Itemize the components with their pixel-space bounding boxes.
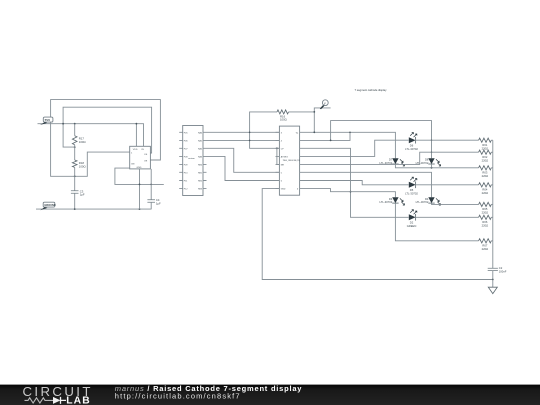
resistor R06 — [479, 215, 492, 219]
wire U1 pin2 / mid rail — [115, 168, 164, 184]
svg-text:220Ω: 220Ω — [482, 223, 489, 227]
resistor R03 — [479, 166, 492, 170]
wire U1 bottom pin to ground rail — [139, 169, 141, 209]
svg-text:LAB: LAB — [66, 396, 90, 405]
svg-text:220Ω: 220Ω — [482, 174, 489, 178]
svg-text:LTL-30702: LTL-30702 — [405, 147, 418, 151]
svg-text:GND: GND — [281, 189, 286, 191]
svg-text:custom: custom — [188, 157, 195, 160]
wire net segF U2 pin6 to D4 — [304, 172, 432, 197]
svg-text:http://circuitlab.com/cn8skf7: http://circuitlab.com/cn8skf7 — [115, 391, 241, 400]
svg-text:v: v — [324, 101, 326, 105]
capacitor C3 — [71, 191, 79, 194]
wire D6 cathode to R01 — [416, 139, 479, 141]
resistor R01 — [479, 138, 492, 142]
wire net segE U2 pin5 to R02 — [304, 152, 479, 164]
svg-text:100Ω: 100Ω — [280, 118, 287, 122]
wire J1 pin4 to U2 — [203, 156, 279, 180]
svg-text:1μF: 1μF — [80, 193, 85, 197]
svg-text:5V0: 5V0 — [45, 118, 51, 122]
LED D8 — [416, 158, 441, 166]
wire D8 cathode — [431, 164, 433, 168]
wire J1 pin2 to U2 — [203, 139, 279, 141]
svg-text:OE: OE — [144, 160, 148, 162]
resistor R04 — [479, 183, 492, 187]
wire net segG U2 pin7 to D5 — [304, 181, 409, 185]
wire D7 cathode to R03 — [395, 164, 478, 168]
wire U1 top pin A drop — [135, 124, 137, 147]
resistor R02 — [479, 150, 492, 154]
resistor R07 — [479, 239, 492, 243]
svg-text:VDD: VDD — [133, 149, 138, 151]
LED D6 — [405, 133, 418, 151]
wire cathode rail — [492, 140, 494, 268]
wire J1 pin3 to U2 — [203, 148, 279, 172]
wire net segH U2 pin8 to D3 — [304, 189, 396, 198]
wire net segA U2 pin1 to D7 — [304, 132, 396, 158]
logo resistor diode glyph — [25, 398, 54, 403]
wire ground return rail — [262, 189, 493, 280]
node flag VCC — [40, 117, 53, 125]
connector J1 — [179, 126, 206, 196]
svg-text:GROUND: GROUND — [44, 203, 56, 207]
IC U1 — [130, 146, 151, 169]
LED D2 — [407, 210, 417, 228]
wire main VCC rail — [38, 124, 144, 147]
svg-text:7SEG_CATHODE (PU): 7SEG_CATHODE (PU) — [283, 159, 301, 162]
svg-text:OS: OS — [144, 154, 148, 156]
LED D3 — [379, 197, 404, 205]
wire inner loop — [63, 107, 152, 153]
svg-text:220Ω: 220Ω — [482, 158, 489, 162]
svg-text:220Ω: 220Ω — [482, 247, 489, 251]
svg-text:LTL-30702: LTL-30702 — [416, 200, 429, 204]
FOOTER bar — [0, 0, 1, 1]
resistor R16 — [250, 112, 280, 148]
wire net segB U2 pin2 to D8 — [304, 132, 351, 140]
svg-text:220Ω: 220Ω — [482, 211, 489, 215]
resistor R05 — [479, 202, 492, 206]
capacitor C2 — [488, 268, 498, 270]
wire D2 cathode to R06 — [416, 216, 479, 218]
wire J1 pin1 to U2 — [203, 131, 279, 133]
svg-text:220Ω: 220Ω — [482, 146, 489, 150]
capacitor C4 — [150, 169, 152, 200]
svg-text:GREEN: GREEN — [407, 224, 417, 228]
svg-text:220Ω: 220Ω — [482, 191, 489, 195]
svg-text:MR: MR — [281, 164, 285, 166]
IC U2 — [276, 126, 304, 195]
wire D3 cathode to R07 — [395, 203, 478, 241]
resistor R17 — [74, 124, 76, 136]
svg-text:1μF: 1μF — [156, 201, 161, 205]
resistor R18 — [72, 160, 77, 167]
svg-text:LTL-30702: LTL-30702 — [405, 192, 418, 196]
wire D5 cathode to R04 — [416, 184, 479, 186]
svg-text:100Ω: 100Ω — [79, 140, 86, 144]
wire net segC U2 pin3 to D2 — [304, 148, 409, 217]
svg-text:GND: GND — [137, 167, 142, 169]
wire outer loop — [51, 100, 161, 177]
LED D7 — [379, 158, 404, 166]
ground — [492, 280, 494, 288]
wire U2 MR loop — [277, 148, 280, 164]
svg-text:100nF: 100nF — [499, 270, 507, 274]
wire net segD U2 pin4 to D6 — [304, 140, 409, 156]
svg-text:LTL-30702: LTL-30702 — [379, 200, 392, 204]
svg-text:GN: GN — [131, 163, 135, 165]
wire D4 cathode to R05 — [432, 203, 479, 204]
node flag ground — [40, 202, 56, 210]
svg-text:A7SEG: A7SEG — [281, 155, 288, 158]
svg-text:100Ω: 100Ω — [79, 164, 86, 168]
LED D5 — [405, 177, 418, 195]
wire ground rail left — [36, 208, 152, 210]
LED D4 — [416, 197, 441, 205]
node flag probe — [313, 100, 330, 133]
junction main rail — [62, 123, 64, 125]
svg-text:7 segment cathode display: 7 segment cathode display — [355, 88, 388, 92]
